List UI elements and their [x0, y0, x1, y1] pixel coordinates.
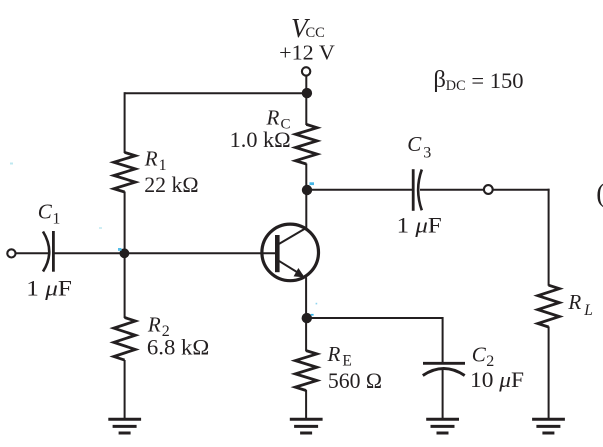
resistor R2 [114, 318, 136, 361]
wire input left [16, 252, 49, 254]
svg-text:1: 1 [52, 211, 60, 228]
junction collector node [302, 185, 312, 195]
wire output 2 [420, 189, 484, 191]
svg-text:R: R [144, 147, 158, 171]
svg-text:3: 3 [423, 145, 431, 162]
capacitor C2 [423, 363, 465, 375]
terminal input [7, 249, 15, 257]
svg-text:R: R [327, 342, 341, 366]
artifact cyan speck near base node [118, 248, 122, 251]
ground below R2 [108, 419, 141, 433]
svg-text:CC: CC [306, 25, 325, 41]
svg-text:C: C [38, 200, 53, 224]
artifact cyan speck near collector node [310, 182, 315, 185]
svg-text:6.8 kΩ: 6.8 kΩ [147, 335, 209, 360]
wire RE lower [305, 390, 307, 419]
resistor R1 [114, 152, 136, 192]
transistor Q1 circle [262, 224, 319, 281]
svg-text:R: R [147, 312, 161, 336]
wire output 3 [493, 189, 549, 191]
wire RL vertical lower [548, 327, 550, 420]
artifact cyan speck above emitter node [316, 303, 318, 305]
svg-text:DC: DC [446, 78, 466, 94]
wire emitter vertical [305, 277, 307, 351]
svg-text:C: C [407, 132, 422, 156]
capacitor C3 [413, 169, 422, 211]
svg-text:R: R [567, 290, 581, 314]
ground below RL [532, 419, 565, 433]
ground below C2 [426, 419, 459, 433]
ground below RE [290, 419, 323, 433]
svg-text:22 kΩ: 22 kΩ [144, 172, 198, 197]
terminal output [484, 185, 493, 194]
wire output 1 [306, 189, 412, 191]
transistor Q1 emitter lead [278, 260, 303, 275]
capacitor C1 [43, 231, 53, 272]
junction base node [120, 248, 130, 258]
svg-text:E: E [342, 352, 351, 369]
svg-text:10 μF: 10 μF [470, 367, 524, 392]
artifact cyan speck at emitter node [311, 314, 314, 316]
wire collector vertical [305, 164, 307, 229]
svg-text:(: ( [596, 178, 603, 208]
wire top rail [125, 92, 307, 94]
svg-text:1.0 kΩ: 1.0 kΩ [230, 127, 291, 152]
wire left rail lower [124, 360, 126, 419]
wire RL vertical upper [548, 189, 550, 286]
wire input to base [55, 252, 276, 254]
resistor RL [538, 285, 560, 327]
terminal Vcc [302, 67, 310, 75]
svg-text:1 μF: 1 μF [26, 275, 72, 300]
svg-text:L: L [583, 302, 593, 319]
svg-text:C: C [472, 342, 487, 366]
resistor RE [295, 351, 317, 391]
junction emitter node [302, 313, 312, 323]
wire C2 vertical lower [442, 370, 444, 419]
wire left rail upper [124, 92, 126, 153]
svg-text:= 150: = 150 [471, 68, 523, 93]
resistor RC [295, 124, 317, 164]
transistor Q1 collector lead [278, 228, 307, 245]
wire emitter to C2 [306, 317, 443, 319]
wire C2 vertical upper [442, 317, 444, 362]
svg-text:1 μF: 1 μF [397, 213, 442, 238]
svg-text:β: β [433, 67, 446, 93]
wire Vcc stub [305, 76, 307, 125]
junction Vcc node [302, 88, 312, 98]
svg-text:560 Ω: 560 Ω [328, 368, 382, 393]
artifact cyan speck left margin [10, 163, 13, 165]
transistor Q1 emitter arrowhead [294, 268, 305, 277]
svg-text:+12 V: +12 V [279, 40, 335, 64]
artifact cyan speck mid [99, 227, 102, 229]
wire left rail middle [124, 192, 126, 319]
transistor Q1 base bar [275, 235, 280, 272]
